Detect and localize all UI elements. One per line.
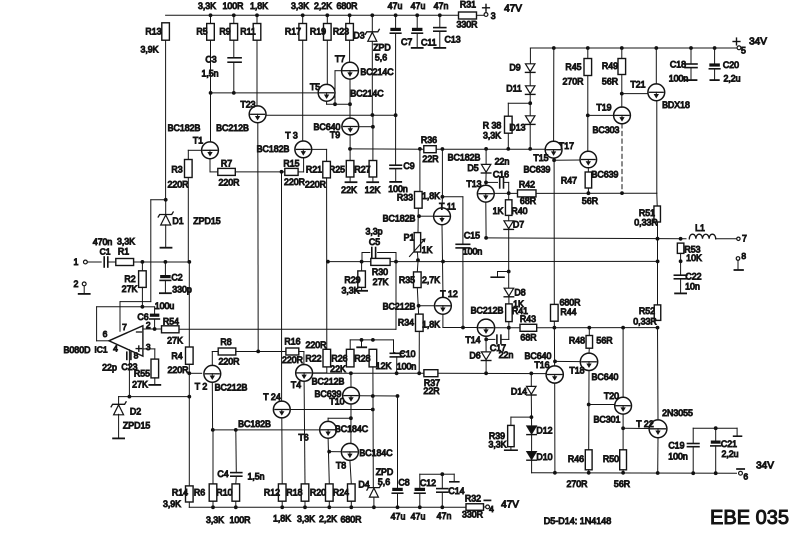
wire C15 bottom — [462, 248, 464, 328]
label T16 — [534, 360, 549, 370]
svg-text:R31: R31 — [460, 0, 476, 9]
svg-text:12K: 12K — [376, 361, 392, 371]
wire T23 base to D3 node — [266, 114, 396, 116]
junction rail C13 — [438, 13, 442, 17]
resistor R54 — [162, 326, 180, 333]
junction R52 bottom — [656, 326, 660, 330]
wire C17 right — [501, 328, 509, 340]
svg-text:BC212B: BC212B — [215, 383, 248, 393]
value 2,2K of R19 — [314, 1, 332, 11]
svg-text:R 38: R 38 — [483, 121, 502, 131]
svg-text:BC182B: BC182B — [257, 144, 290, 154]
svg-text:3,3K: 3,3K — [206, 515, 224, 525]
label BC212B of T2 — [215, 383, 248, 393]
svg-text:C21: C21 — [721, 439, 737, 449]
ground below R55 — [149, 384, 160, 386]
label R32 — [465, 493, 481, 503]
value 330R of R32 — [462, 509, 483, 519]
svg-text:R40: R40 — [511, 206, 527, 216]
resistor R47 — [585, 172, 592, 188]
transistor T15 — [580, 151, 597, 168]
junction T20 collector — [621, 326, 625, 330]
terminal 6 — [739, 471, 743, 475]
wire T4 right to R22 — [313, 367, 327, 373]
junction rail C20 — [713, 46, 717, 50]
wire rail to R5 — [210, 15, 212, 23]
label C1 — [100, 247, 111, 257]
wire T18 base — [555, 360, 580, 362]
bar stub right — [734, 435, 742, 437]
svg-text:R4: R4 — [171, 351, 182, 361]
zener diode D3 — [365, 29, 379, 41]
label D1 — [172, 216, 183, 226]
junction input node R3 R4 — [187, 260, 191, 264]
svg-text:1,8K: 1,8K — [422, 319, 440, 329]
wire C14 to rail — [441, 492, 443, 507]
value 5,6 of D3 — [375, 53, 387, 63]
svg-text:R46: R46 — [568, 454, 584, 464]
label BC182B of T24 — [238, 419, 271, 429]
svg-text:27K: 27K — [122, 284, 138, 294]
resistor R10 — [232, 484, 240, 501]
label R14 — [172, 487, 188, 497]
resistor R45 — [584, 59, 592, 76]
resistor R40 — [505, 200, 512, 216]
junction rail C8 — [396, 505, 400, 509]
resistor R53 — [677, 243, 684, 253]
label 2N3055 of T22 — [662, 408, 693, 418]
diode D6 — [481, 352, 491, 361]
wire D10 to bottom wire — [531, 460, 533, 473]
wire R25 to ground — [349, 177, 351, 181]
wire R48 to T18 — [588, 348, 590, 353]
label 7 terminal — [742, 233, 747, 243]
svg-text:T14: T14 — [465, 335, 480, 345]
ground terminal 8 — [734, 269, 743, 271]
ground terminal 2 — [79, 293, 90, 295]
wire feedback rail — [328, 261, 371, 263]
value 220R of R3 — [167, 180, 188, 190]
svg-text:R15: R15 — [283, 159, 299, 169]
svg-text:R17: R17 — [285, 27, 301, 37]
resistor R44 — [551, 304, 559, 321]
wire T20 collector — [622, 328, 624, 398]
resistor R34 — [416, 314, 424, 331]
junction C8 top — [396, 394, 400, 398]
junction C10 top — [394, 260, 398, 264]
capacitor C5 — [372, 248, 376, 258]
svg-text:1,5n: 1,5n — [247, 472, 264, 482]
wire T17 collector — [553, 48, 555, 141]
wire to C2 — [164, 262, 166, 275]
svg-text:7: 7 — [122, 322, 127, 332]
svg-text:BC182B: BC182B — [448, 153, 481, 163]
value 68R of R43 — [520, 332, 536, 342]
svg-text:ZPD: ZPD — [373, 43, 391, 53]
junction T11 collector — [441, 195, 445, 199]
value 3,3K of R17 — [291, 1, 309, 11]
svg-text:270R: 270R — [562, 76, 583, 86]
ground below C9 — [390, 181, 401, 183]
label C9 — [403, 161, 414, 171]
junction T6 collector tap — [349, 416, 353, 420]
label C14 — [448, 486, 464, 496]
plus sign noninverting input — [136, 346, 141, 351]
label T4 — [291, 380, 301, 390]
bar below C18 — [686, 79, 697, 81]
svg-text:R1: R1 — [118, 246, 129, 256]
label C6 — [137, 312, 148, 322]
wire input to C1 — [87, 261, 101, 263]
label 34V top — [749, 37, 767, 48]
label R8 — [220, 337, 231, 347]
svg-text:T 22: T 22 — [636, 419, 654, 429]
resistor R49 — [618, 59, 626, 75]
svg-text:6: 6 — [743, 472, 748, 482]
value 1,8K of R33 — [422, 191, 440, 201]
label C16 — [493, 169, 509, 179]
svg-text:56R: 56R — [596, 336, 612, 346]
wire D2 stub — [118, 397, 120, 405]
svg-text:47V: 47V — [501, 499, 519, 510]
svg-text:D5-D14: 1N4148: D5-D14: 1N4148 — [544, 516, 612, 526]
svg-text:BC184C: BC184C — [335, 424, 369, 434]
capacitor C15 — [456, 244, 470, 248]
label B080D of IC1 — [64, 345, 91, 355]
wire T18 emitter — [588, 371, 590, 450]
value 47n of C14 — [437, 511, 452, 521]
wire C16 to R40 — [504, 182, 509, 193]
resistor R3 — [185, 160, 193, 178]
diode D9 — [525, 64, 535, 73]
resistor R39 — [508, 425, 515, 446]
svg-text:68R: 68R — [520, 332, 536, 342]
label C4 — [217, 469, 228, 479]
svg-text:1,5n: 1,5n — [201, 69, 218, 79]
junction rail R6 — [211, 505, 215, 509]
wire T22 emitter — [657, 438, 659, 473]
wire top supply rail — [166, 14, 458, 16]
junction T19 emitter — [620, 191, 624, 195]
label T10 — [329, 396, 344, 406]
svg-text:R16: R16 — [284, 337, 300, 347]
wire C22 to ground — [680, 279, 682, 293]
resistor R55 — [151, 359, 159, 378]
value 3,3K of R38 — [483, 131, 501, 141]
value 56R of R50 — [614, 479, 630, 489]
wire R54 to C10 node — [179, 262, 396, 330]
wire R47 bottom — [587, 188, 589, 193]
wire C10 top stem — [394, 352, 397, 353]
svg-text:47u: 47u — [388, 1, 403, 11]
wire C10 column — [395, 262, 397, 330]
transistor T12 — [435, 297, 452, 314]
transistor T21 — [648, 84, 665, 101]
svg-text:T10: T10 — [329, 396, 344, 406]
transistor T11 — [434, 208, 451, 225]
junction rail R49 — [620, 46, 624, 50]
ground below R27 — [367, 181, 378, 183]
wire rail to T21 collector — [655, 48, 657, 84]
svg-text:T9: T9 — [330, 130, 340, 140]
wire R27 column — [372, 115, 374, 165]
value 220R of R7 — [218, 177, 239, 187]
svg-text:220R: 220R — [218, 356, 239, 366]
junction R2 bottom — [141, 305, 145, 309]
label C12 — [420, 478, 436, 488]
ground below R29 — [356, 290, 367, 292]
svg-text:10K: 10K — [686, 253, 702, 263]
svg-text:T 3: T 3 — [285, 130, 298, 140]
wire T12 emitter jog — [443, 314, 478, 327]
value 3,9K of R13 — [140, 45, 158, 55]
svg-text:D6: D6 — [469, 351, 480, 361]
wire R32 to terminal 4 — [484, 506, 486, 508]
label pin 4 — [113, 343, 118, 353]
resistor R21 — [323, 161, 331, 178]
wire D8 to R41 — [508, 297, 510, 304]
wire R9 to C3 — [233, 40, 235, 57]
junction T12 base — [417, 304, 421, 308]
label C15 — [464, 231, 480, 241]
junction rail R45 — [586, 46, 590, 50]
label R24 — [333, 487, 349, 497]
value 100n of C10 — [397, 362, 417, 372]
svg-text:R54: R54 — [163, 316, 179, 326]
wire driver rail right — [536, 192, 657, 194]
junction rail T17 collector — [552, 46, 556, 50]
svg-text:22K: 22K — [341, 185, 357, 195]
junction D6 bottom — [484, 371, 488, 375]
resistor R38 — [505, 116, 513, 133]
wire R1 to input node — [134, 261, 190, 263]
resistor R16 — [286, 348, 299, 355]
wire T17 emitter — [553, 158, 555, 160]
wire R29 — [361, 262, 363, 271]
svg-text:1: 1 — [74, 257, 79, 267]
label R44 — [560, 307, 576, 317]
label T18 — [569, 366, 584, 376]
resistor R26 — [346, 349, 354, 367]
transistor T6 — [320, 421, 337, 438]
wire T7 base stub — [335, 71, 342, 105]
wire feedback rail mid — [418, 260, 658, 262]
label C7 — [401, 37, 412, 47]
svg-text:3,3p: 3,3p — [365, 227, 382, 237]
wire rail to R9 — [233, 15, 235, 23]
diode D5 — [481, 164, 491, 173]
wire rail to R49 — [621, 48, 623, 59]
svg-text:C3: C3 — [205, 54, 216, 64]
wire R20 to rail — [328, 501, 330, 507]
wire D11 to junction — [529, 94, 531, 115]
value 680R of R24 — [340, 515, 361, 525]
svg-text:D11: D11 — [506, 83, 522, 93]
label R42 — [519, 179, 535, 189]
svg-text:220R: 220R — [305, 180, 326, 190]
label C18 — [670, 60, 686, 70]
wire R53 to C22 — [680, 253, 682, 275]
label 4 terminal — [489, 504, 494, 514]
svg-text:C10: C10 — [399, 349, 415, 359]
junction T2 base — [187, 371, 191, 375]
svg-text:ZPD15: ZPD15 — [123, 420, 150, 430]
wire rail to C18 — [690, 48, 692, 64]
wire D5 top — [485, 149, 487, 165]
wire T23 emitter down — [257, 123, 259, 352]
resistor R14 — [186, 486, 194, 502]
svg-text:220R: 220R — [218, 177, 239, 187]
svg-text:680R: 680R — [336, 1, 357, 11]
svg-text:L1: L1 — [695, 223, 705, 233]
svg-text:22n: 22n — [499, 350, 514, 360]
value 2,2K of R20 — [319, 514, 337, 524]
svg-text:R29: R29 — [344, 275, 360, 285]
terminal 8 — [736, 257, 740, 261]
resistor R51 — [654, 206, 661, 222]
label T23 — [240, 100, 255, 110]
label R25 — [329, 165, 345, 175]
transistor T18 — [580, 353, 597, 370]
wire rail to R19 — [326, 15, 328, 23]
value 27K of R2 — [122, 284, 138, 294]
label R19 — [310, 27, 326, 37]
wire C19 bottom — [692, 447, 694, 474]
junction C21 top — [714, 426, 718, 430]
label R50 — [603, 454, 619, 464]
junction rail R24 — [349, 505, 353, 509]
label T19 — [596, 102, 611, 112]
resistor R43 — [520, 324, 537, 331]
label BC182B of T1 — [168, 123, 201, 133]
junction R53 top — [679, 237, 683, 241]
junction R51 bottom — [656, 237, 660, 241]
svg-text:100R: 100R — [229, 515, 250, 525]
label BC212B of T23 — [216, 123, 249, 133]
junction R28 top — [371, 338, 375, 342]
label 2 terminal — [74, 279, 79, 289]
svg-text:R28: R28 — [354, 354, 370, 364]
svg-text:34V: 34V — [756, 461, 774, 472]
svg-text:C8: C8 — [398, 478, 409, 488]
resistor R27 — [369, 161, 377, 178]
junction T11 T12 column — [441, 260, 445, 264]
junction T8 base tap — [327, 450, 331, 454]
junction T21 base tap — [620, 92, 624, 96]
junction rail C14 — [440, 505, 444, 509]
wire to R2 — [141, 262, 143, 271]
wire D13 to base wire — [529, 124, 531, 148]
label ZPD of D4 — [376, 467, 394, 477]
label D3 — [353, 31, 364, 41]
svg-text:56R: 56R — [602, 76, 618, 86]
wire C21 stem — [715, 428, 717, 440]
junction P1 bottom — [416, 258, 420, 262]
value 1K of R40 — [493, 206, 504, 216]
wire D4 to bottom rail — [373, 497, 375, 507]
svg-text:T 2: T 2 — [195, 382, 208, 392]
label R54 — [163, 316, 179, 326]
value 10n of C22 — [685, 281, 700, 291]
wire rail corner to D9 — [529, 48, 531, 64]
junction R36 right — [441, 147, 445, 151]
wire base rail T1 T5 — [211, 92, 319, 94]
svg-text:12K: 12K — [365, 185, 381, 195]
label pin 6 — [103, 329, 108, 339]
bar output rail stub upper — [491, 276, 504, 278]
wire D5 to T13 — [485, 173, 487, 185]
wire T6 collector — [328, 418, 351, 421]
label 6 terminal — [743, 472, 748, 482]
value 1K of R41 — [513, 299, 524, 309]
wire T21 emitter down — [656, 101, 658, 193]
junction T19 base tap — [586, 114, 590, 118]
svg-text:220R: 220R — [284, 177, 305, 187]
svg-text:R23: R23 — [333, 27, 349, 37]
wire input node down to R4 — [188, 262, 190, 347]
label R43 — [520, 314, 536, 324]
diode D13 — [525, 116, 535, 125]
svg-text:220R: 220R — [305, 340, 326, 350]
ground below D1 — [161, 247, 172, 249]
svg-text:1K: 1K — [493, 206, 504, 216]
label 1 terminal — [74, 257, 79, 267]
wire pin2 to R54 — [155, 328, 162, 330]
junction rail R12 — [280, 505, 284, 509]
wire D14 to D12 — [530, 395, 532, 426]
svg-text:47n: 47n — [434, 1, 449, 11]
junction T22 emitter bottom — [656, 471, 660, 475]
svg-text:C2: C2 — [171, 272, 182, 282]
svg-text:B080D: B080D — [64, 345, 91, 355]
svg-text:T1: T1 — [193, 136, 203, 146]
transistor T16 — [546, 366, 563, 383]
wire C17 left — [486, 338, 495, 340]
svg-text:22n: 22n — [495, 157, 510, 167]
resistor R41 — [506, 304, 513, 322]
svg-text:R52: R52 — [639, 306, 655, 316]
wire R24 to rail — [350, 501, 352, 507]
svg-text:220R: 220R — [167, 365, 188, 375]
wire R10 top — [235, 430, 238, 473]
label BC182B of T3 — [257, 144, 290, 154]
capacitor C22 — [674, 275, 687, 279]
svg-text:2N3055: 2N3055 — [662, 408, 693, 418]
svg-text:BC182B: BC182B — [168, 123, 201, 133]
wire T20 base — [589, 404, 615, 406]
transistor T14 — [477, 319, 494, 336]
wire R48 — [588, 328, 590, 336]
svg-text:7: 7 — [742, 233, 747, 243]
transistor T3 — [295, 141, 312, 158]
value 2,2u of C21 — [721, 449, 738, 459]
svg-text:5,6: 5,6 — [378, 477, 390, 487]
resistor R7 — [218, 168, 236, 175]
svg-text:D9: D9 — [509, 63, 520, 73]
label R11 — [240, 27, 256, 37]
wire T8 emitter — [350, 460, 351, 484]
label T24 — [263, 392, 281, 402]
value 100n of C9 — [388, 184, 408, 194]
wire C1 to R1 — [108, 261, 116, 263]
svg-text:100u: 100u — [155, 301, 175, 311]
wire rail to R45 — [587, 48, 589, 59]
ground below R25 — [346, 181, 357, 183]
svg-text:R10: R10 — [216, 487, 232, 497]
wire R36 right — [436, 148, 545, 150]
svg-text:47u: 47u — [411, 1, 426, 11]
value 220R of R4 — [167, 365, 188, 375]
